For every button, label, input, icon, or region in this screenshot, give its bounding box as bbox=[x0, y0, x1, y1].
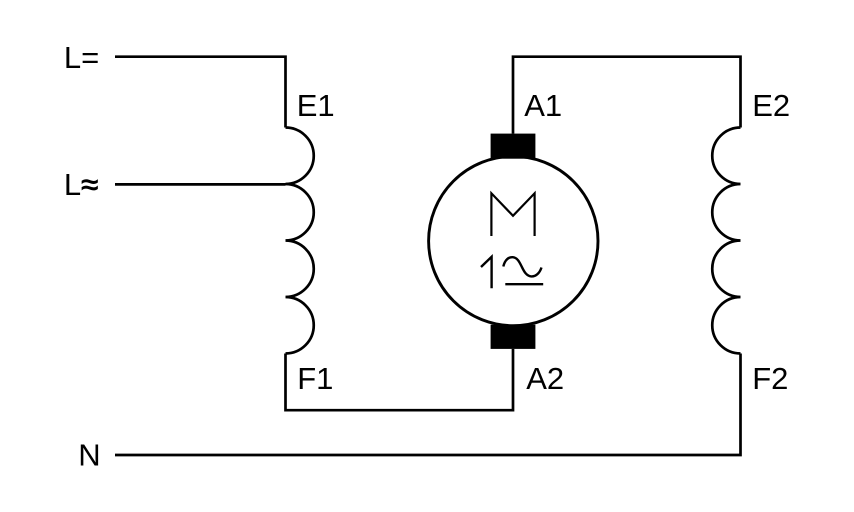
underline of AC symbol bbox=[505, 283, 543, 285]
inductor E2-F2 (right field winding, 4 arcs) bbox=[712, 128, 740, 354]
svg-text:F2: F2 bbox=[752, 361, 788, 396]
svg-text:E2: E2 bbox=[752, 88, 790, 123]
inductor E1-F1 (left field winding, 4 arcs) bbox=[286, 128, 314, 354]
svg-text:A2: A2 bbox=[526, 361, 564, 396]
motor AC sine symbol bbox=[503, 257, 541, 276]
wire L~ tap to coil junction bbox=[115, 183, 286, 186]
motor letter M bbox=[491, 193, 534, 236]
svg-text:E1: E1 bbox=[297, 88, 335, 123]
svg-text:L=: L= bbox=[64, 40, 99, 75]
svg-text:N: N bbox=[78, 438, 100, 473]
brush terminal A2 (bottom black block) bbox=[491, 325, 536, 349]
brush terminal A1 (top black block) bbox=[491, 134, 536, 159]
svg-text:L≈: L≈ bbox=[64, 167, 98, 202]
wire F1 to A2 (bottom of left branch to motor bottom) bbox=[286, 349, 514, 410]
wire A1 to motor top and top rail to coil E2 bbox=[513, 57, 741, 134]
motor M1 body circle bbox=[429, 156, 598, 325]
wire L= to coil E1 top bbox=[115, 57, 286, 128]
svg-text:A1: A1 bbox=[524, 88, 562, 123]
svg-text:F1: F1 bbox=[297, 361, 333, 396]
wire F2 down to N rail and N rail to left bbox=[115, 354, 741, 456]
motor digit 1 bbox=[481, 257, 492, 288]
